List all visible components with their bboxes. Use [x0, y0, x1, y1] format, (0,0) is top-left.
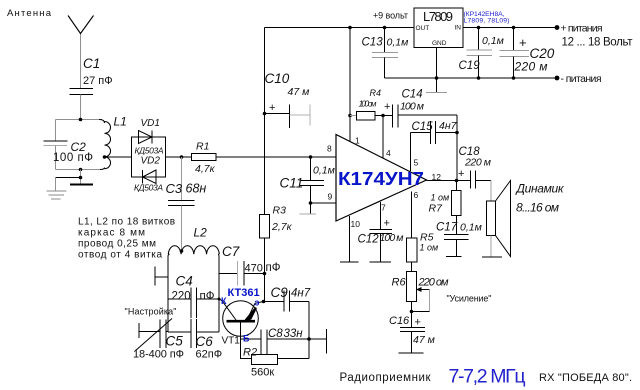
wire pin1 supply vertical [349, 28, 351, 142]
inductor L1 [99, 120, 111, 170]
node tank-bottom junction [79, 168, 83, 172]
svg-text:+ питания: + питания [561, 23, 603, 35]
svg-text:КД503А: КД503А [135, 146, 164, 156]
capacitor C13 [384, 28, 386, 53]
svg-text:+: + [384, 101, 390, 113]
node C20 top junction [512, 26, 516, 30]
svg-text:1: 1 [355, 136, 360, 146]
svg-text:1 ом: 1 ом [420, 243, 439, 253]
capacitor C14 [383, 115, 393, 117]
wire below R6 [411, 302, 413, 328]
svg-text:4: 4 [386, 148, 391, 158]
svg-text:0,1м: 0,1м [460, 222, 482, 234]
node signal junction pin8 [309, 155, 313, 159]
svg-text:С3: С3 [166, 181, 183, 196]
capacitor C8 lead left [241, 338, 262, 340]
potentiometer R6 arrow head [416, 287, 422, 292]
node emitter junction [262, 300, 266, 304]
capacitor C15 [430, 121, 432, 144]
node C8 junction [307, 337, 311, 341]
wire GND stub [436, 48, 438, 93]
svg-text:OUT: OUT [416, 25, 430, 32]
wire C1 to tank top [80, 95, 82, 120]
resistor R2 [252, 355, 278, 365]
svg-text:С10: С10 [265, 71, 290, 86]
regulator U2 L7809 [414, 8, 463, 48]
wire tank left upper [55, 120, 57, 142]
svg-text:С8: С8 [268, 328, 283, 340]
svg-text:7-7,2 МГц: 7-7,2 МГц [449, 366, 526, 388]
svg-text:R4: R4 [370, 88, 382, 98]
wire to ground [80, 170, 82, 185]
svg-text:С19: С19 [459, 60, 481, 72]
svg-text:R1: R1 [196, 141, 209, 153]
svg-text:12 ... 18 Вольт: 12 ... 18 Вольт [562, 37, 634, 49]
svg-text:R3: R3 [273, 205, 287, 217]
node pin9 junction [309, 201, 313, 205]
capacitor C9 lead right [290, 301, 310, 303]
capacitor C8 lead right [267, 338, 327, 340]
svg-text:С6: С6 [196, 334, 214, 349]
node R6 wiper junction [410, 310, 414, 314]
capacitor C7 [219, 273, 238, 275]
svg-text:27 пФ: 27 пФ [83, 75, 113, 87]
svg-text:2,7к: 2,7к [271, 221, 293, 233]
svg-text:С9: С9 [271, 285, 289, 300]
svg-text:220 м: 220 м [464, 157, 491, 169]
svg-text:IN: IN [455, 25, 462, 32]
svg-text:пФ: пФ [200, 291, 215, 303]
svg-text:100 пФ: 100 пФ [53, 152, 93, 164]
ground [47, 190, 67, 192]
svg-text:С7: С7 [222, 244, 240, 259]
capacitor C6 [190, 319, 192, 348]
svg-text:+: + [269, 102, 275, 114]
capacitor C15 lead left [411, 132, 431, 134]
wire C10-R3 vertical [264, 28, 266, 215]
wire C9 right vertical [308, 302, 310, 359]
node C3 junction [180, 155, 184, 159]
wire pin5 vertical [410, 133, 412, 172]
svg-text:8: 8 [327, 144, 332, 154]
capacitor C18 [470, 171, 472, 189]
svg-text:VT1: VT1 [222, 336, 241, 347]
resistor R4 [350, 115, 357, 117]
inductor L2 [168, 246, 219, 257]
node C7 junction [263, 272, 267, 276]
svg-text:+: + [384, 218, 390, 230]
capacitor C2 [44, 140, 68, 142]
svg-text:С13: С13 [362, 37, 384, 49]
wire speaker top [490, 181, 492, 202]
svg-text:62пФ: 62пФ [196, 349, 223, 361]
capacitor C9 lead left [264, 301, 285, 303]
svg-text:КД503А: КД503А [134, 183, 163, 193]
svg-text:9: 9 [328, 192, 333, 202]
wire pin8-pin9 vertical [310, 157, 312, 181]
svg-text:"Настройка": "Настройка" [125, 307, 177, 317]
svg-text:5: 5 [414, 158, 419, 168]
node tank-top junction [79, 118, 83, 122]
diode VD2 [143, 170, 157, 184]
svg-text:С11: С11 [280, 176, 304, 191]
terminal plus [555, 25, 560, 30]
svg-text:100 м: 100 м [380, 232, 404, 244]
svg-text:7: 7 [381, 203, 386, 213]
svg-text:L7809, 78L09): L7809, 78L09) [464, 18, 510, 25]
wire pin4 vertical [382, 116, 384, 159]
capacitor C5 trimmer arrow [135, 319, 172, 352]
capacitor C10 [265, 113, 290, 115]
svg-text:С5: С5 [166, 334, 184, 349]
wire R2 right [278, 358, 310, 360]
antenna [68, 16, 94, 34]
wire speaker bottom [490, 236, 492, 257]
resistor R7 [456, 181, 458, 191]
svg-text:отвод от 4 витка: отвод от 4 витка [78, 250, 162, 261]
wire L2 tank right vertical [218, 256, 220, 332]
svg-text:47 м: 47 м [288, 86, 310, 98]
wire tank left lower [55, 146, 57, 170]
node C15 right junction [455, 131, 459, 135]
diode VD1 [139, 131, 153, 144]
node output junction [455, 179, 459, 183]
capacitor C4 lead right [197, 298, 220, 300]
resistor R3 [260, 215, 270, 239]
ground bar [70, 184, 93, 186]
capacitor C6 lead left [168, 331, 191, 333]
svg-text:L1, L2 по 18 витков: L1, L2 по 18 витков [78, 217, 175, 228]
wire top rail from C10 vertical [265, 27, 415, 29]
svg-text:Динамик: Динамик [515, 182, 565, 196]
wire R5 to R6 [411, 262, 413, 272]
svg-text:10: 10 [351, 219, 361, 229]
node C10 junction [263, 112, 267, 116]
svg-text:- питания: - питания [561, 73, 602, 85]
op-amp U1 K174UN7 [336, 135, 427, 222]
node C13 junction [383, 26, 387, 30]
svg-text:12: 12 [432, 172, 442, 182]
svg-text:0,1м: 0,1м [482, 35, 504, 47]
node C19 top junction [477, 26, 481, 30]
wire C3 vertical upper [181, 157, 183, 200]
capacitor C4 [190, 288, 192, 319]
svg-text:4,7к: 4,7к [195, 163, 216, 175]
wire pin7 vertical [380, 202, 382, 230]
svg-text:С4: С4 [176, 274, 193, 289]
svg-text:э: э [255, 298, 260, 308]
speaker cone [496, 181, 511, 257]
wire below pin9 [310, 203, 312, 214]
svg-text:С15: С15 [412, 121, 434, 133]
wire tank top [56, 119, 103, 121]
svg-text:R2: R2 [243, 347, 257, 359]
svg-text:6: 6 [414, 190, 419, 200]
wire diodes to R1 [166, 156, 193, 158]
capacitor C4 lead left [168, 298, 191, 300]
svg-text:К174УН7: К174УН7 [338, 169, 424, 189]
svg-text:L2: L2 [194, 226, 208, 240]
wire L2 tank left vertical [167, 256, 169, 332]
wire pin9 stub [311, 202, 337, 204]
svg-text:R6: R6 [392, 277, 407, 289]
svg-text:+: + [458, 168, 464, 180]
svg-text:Антенна: Антенна [7, 8, 52, 19]
svg-text:100 ом: 100 ом [359, 99, 377, 109]
svg-text:33н: 33н [284, 328, 304, 340]
svg-text:0,1м: 0,1м [313, 165, 335, 177]
svg-text:L1: L1 [114, 115, 127, 129]
svg-text:С12: С12 [358, 234, 380, 246]
svg-text:С1: С1 [83, 56, 100, 71]
svg-text:470: 470 [245, 263, 263, 275]
wire minus rail [385, 77, 558, 79]
transistor VT1 base bar [227, 320, 256, 323]
svg-text:С14: С14 [402, 89, 423, 101]
svg-text:560к: 560к [251, 367, 274, 379]
wire C14 right vertical [456, 115, 458, 181]
capacitor C8 [260, 330, 262, 355]
node K junction [218, 298, 221, 301]
diode box VD1 VD2 [132, 137, 166, 177]
node L2 tap [180, 249, 184, 253]
svg-text:0,1м: 0,1м [387, 37, 409, 49]
capacitor C16 [400, 327, 425, 329]
wire left stub [155, 276, 168, 278]
wire R3 to emitter node [264, 238, 266, 302]
svg-text:каркас 8 мм: каркас 8 мм [78, 228, 145, 239]
svg-text:+: + [415, 317, 421, 329]
svg-text:220 ом: 220 ом [418, 277, 449, 289]
node R4 left junction [348, 114, 352, 118]
svg-text:GND: GND [432, 40, 447, 47]
svg-text:С17: С17 [436, 222, 458, 234]
transistor VT1 [223, 301, 259, 337]
potentiometer R6 wiper wire [419, 289, 430, 291]
terminal minus [555, 76, 560, 81]
wire pin10 vertical [349, 216, 351, 262]
wire collector from tank [219, 299, 222, 301]
svg-text:L7809: L7809 [423, 9, 453, 24]
svg-text:К: К [221, 296, 227, 306]
capacitor C9 [283, 291, 285, 312]
transistor VT1 emitter arrow [246, 309, 256, 321]
capacitor C6 lead right [197, 331, 220, 333]
capacitor C5 trimmer [138, 323, 140, 338]
wire R1 to pin8 [216, 156, 336, 158]
svg-text:18-400 пФ: 18-400 пФ [133, 349, 184, 361]
capacitor C20 [513, 28, 515, 51]
capacitor C3 [168, 200, 195, 202]
capacitor C12 [370, 229, 393, 231]
resistor R6 [407, 272, 417, 302]
svg-text:С16: С16 [389, 315, 410, 327]
svg-text:4н7: 4н7 [439, 120, 458, 132]
svg-text:RX "ПОБЕДА 80".: RX "ПОБЕДА 80". [539, 372, 632, 384]
wire output pin12 [427, 180, 471, 182]
svg-text:провод 0,25 мм: провод 0,25 мм [78, 239, 156, 250]
resistor R1 [192, 154, 217, 161]
node R4 right junction pin4 [381, 114, 385, 118]
svg-text:R7: R7 [429, 203, 444, 215]
svg-text:VD1: VD1 [141, 118, 160, 129]
svg-text:47 м: 47 м [413, 334, 435, 346]
svg-text:+9 вольт: +9 вольт [373, 11, 408, 21]
wire L1 tap to diodes [104, 156, 132, 158]
wire tank bottom [56, 169, 102, 171]
svg-text:220 м: 220 м [514, 60, 548, 74]
capacitor C11 [300, 180, 325, 182]
capacitor C15 lead right [436, 132, 458, 134]
resistor R5 [407, 238, 418, 262]
svg-text:Радиоприемник: Радиоприемник [340, 372, 432, 384]
speaker [487, 201, 496, 236]
wire antenna lead [80, 33, 82, 89]
capacitor C19 [478, 28, 480, 50]
svg-text:"Усиление": "Усиление" [447, 294, 492, 304]
svg-text:+: + [519, 35, 527, 50]
capacitor C17 [444, 234, 469, 236]
svg-text:220: 220 [172, 291, 191, 303]
wire ground branch [56, 177, 82, 179]
transistor VT1 base wire [240, 322, 242, 359]
svg-text:VD2: VD2 [141, 156, 161, 167]
node L1 tap [103, 155, 107, 159]
svg-text:100 м: 100 м [400, 101, 424, 113]
svg-text:1 ом: 1 ом [431, 193, 450, 203]
wire C3 vertical lower [181, 206, 183, 252]
wire pin6 vertical [411, 192, 413, 239]
svg-text:8...16 ом: 8...16 ом [516, 201, 559, 215]
svg-text:4н7: 4н7 [291, 288, 311, 300]
capacitor C1 [70, 88, 94, 90]
node pin1 rail junction [348, 26, 352, 30]
svg-text:пФ: пФ [266, 262, 281, 274]
wire IN rail [463, 27, 557, 29]
svg-text:Б: Б [243, 334, 250, 344]
svg-text:68н: 68н [186, 182, 207, 196]
